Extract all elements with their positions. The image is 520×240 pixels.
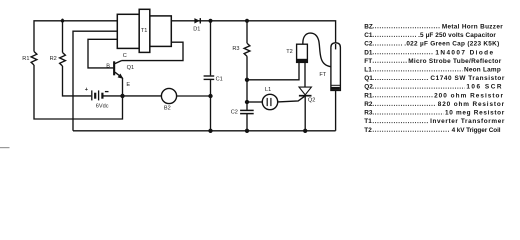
svg-text:Q2: Q2 xyxy=(308,98,315,104)
svg-text:106 SCR: 106 SCR xyxy=(466,84,503,91)
node R2 top junction xyxy=(62,19,64,53)
wire R1 bottom / emitter node xyxy=(34,65,123,119)
scan artifact dash bottom-left xyxy=(0,147,10,149)
svg-text:C: C xyxy=(123,53,127,59)
transformer T1 xyxy=(117,9,171,52)
wire L1 to Q2 gate xyxy=(278,96,305,102)
svg-text:R1: R1 xyxy=(364,92,373,99)
wire B2 right to C1 node xyxy=(177,95,211,97)
svg-text:C1740 SW Transistor: C1740 SW Transistor xyxy=(430,75,505,82)
wire to L1 xyxy=(247,101,262,103)
svg-text:Metal Horn Buzzer: Metal Horn Buzzer xyxy=(442,23,503,30)
svg-text:T1: T1 xyxy=(141,28,148,34)
svg-text:200 ohm Resistor: 200 ohm Resistor xyxy=(434,92,504,99)
diode D1 xyxy=(194,18,199,23)
wire R3 bottom vertical xyxy=(246,56,248,110)
wire T2 trigger lead curve to FT xyxy=(303,33,331,67)
svg-text:+: + xyxy=(85,87,89,93)
node R3/L1 wire junction xyxy=(246,101,249,104)
wire top rail left xyxy=(34,21,117,52)
svg-text:B2: B2 xyxy=(164,106,171,112)
svg-text:R1: R1 xyxy=(22,56,29,62)
SCR Q2 xyxy=(299,87,311,95)
wire T1 middle tap to bottom rail xyxy=(73,31,117,131)
resistor R1 xyxy=(31,52,37,66)
svg-text:D1: D1 xyxy=(364,49,373,56)
svg-text:Micro Strobe Tube/Reflector: Micro Strobe Tube/Reflector xyxy=(408,58,501,65)
svg-text:FT: FT xyxy=(364,58,372,65)
svg-text:.5 µF 250 volts Capacitor: .5 µF 250 volts Capacitor xyxy=(418,32,496,39)
svg-text:10 meg Resistor: 10 meg Resistor xyxy=(445,110,505,117)
node emitter/battery junction xyxy=(121,94,124,97)
svg-text:1N4007 Diode: 1N4007 Diode xyxy=(435,49,494,56)
resistor R3 xyxy=(246,21,248,43)
wire R2 bottom to battery xyxy=(63,66,92,96)
node Q2/bottom rail xyxy=(304,129,307,132)
transistor Q1 xyxy=(113,61,115,75)
svg-text:Q1: Q1 xyxy=(127,65,134,71)
svg-text:T2: T2 xyxy=(364,127,372,134)
wire T2 right lead to Q2 anode xyxy=(304,62,306,87)
trigger coil T2 xyxy=(297,44,308,62)
battery B1 6Vdc xyxy=(92,90,103,100)
neon lamp L1 xyxy=(262,94,277,109)
svg-text:4 kV Trigger Coil: 4 kV Trigger Coil xyxy=(452,127,501,134)
svg-text:L1: L1 xyxy=(364,67,372,74)
wire T1 feedback tap to Q1 base xyxy=(88,39,117,68)
node C2/bottom rail xyxy=(246,129,249,132)
svg-text:T1: T1 xyxy=(364,118,372,125)
node R3/T2 wire junction xyxy=(246,78,249,81)
svg-text:Q1: Q1 xyxy=(364,75,373,82)
svg-text:R2: R2 xyxy=(50,56,57,62)
svg-text:E: E xyxy=(126,82,130,88)
svg-text:T2: T2 xyxy=(286,49,293,55)
svg-text:BZ: BZ xyxy=(364,23,373,30)
wire bottom rail xyxy=(73,130,336,132)
svg-text:C1: C1 xyxy=(364,32,373,39)
svg-text:Neon Lamp: Neon Lamp xyxy=(464,67,501,74)
svg-text:Inverter Transformer: Inverter Transformer xyxy=(430,118,505,125)
node rail/R3 junction xyxy=(246,19,249,22)
svg-text:C1: C1 xyxy=(216,77,223,83)
svg-text:R3: R3 xyxy=(364,110,373,117)
wire top rail right xyxy=(171,21,335,49)
node rail/C1 junction xyxy=(209,19,212,22)
svg-text:FT: FT xyxy=(319,72,326,78)
svg-text:.022 µF Green Cap (223 K5K): .022 µF Green Cap (223 K5K) xyxy=(404,41,499,48)
svg-text:L1: L1 xyxy=(265,87,271,93)
node C1/bottom rail xyxy=(209,129,212,132)
node B2 wire / C1 vertical xyxy=(209,95,212,98)
capacitor C1 xyxy=(210,21,212,76)
svg-text:820 ohm Resistor: 820 ohm Resistor xyxy=(438,101,505,108)
flash tube FT xyxy=(331,43,341,91)
svg-text:B: B xyxy=(106,63,110,69)
capacitor C2 xyxy=(240,109,254,111)
battery minus polarity mark xyxy=(105,91,109,93)
svg-text:C2: C2 xyxy=(231,109,238,115)
svg-text:R2: R2 xyxy=(364,101,373,108)
buzzer B2 xyxy=(161,88,176,103)
svg-text:D1: D1 xyxy=(193,26,200,32)
resistor R2 xyxy=(60,53,66,67)
wire FT cathode to bottom rail xyxy=(335,90,337,130)
wire to T2 left lead xyxy=(247,62,299,79)
svg-text:R3: R3 xyxy=(232,46,239,52)
wire B2 to C1 vertical xyxy=(123,95,162,97)
svg-text:Q2: Q2 xyxy=(364,84,373,91)
svg-text:6Vdc: 6Vdc xyxy=(96,104,109,110)
svg-text:C2: C2 xyxy=(364,41,373,48)
wire Q1 collector to T1 secondary bottom xyxy=(122,42,184,60)
